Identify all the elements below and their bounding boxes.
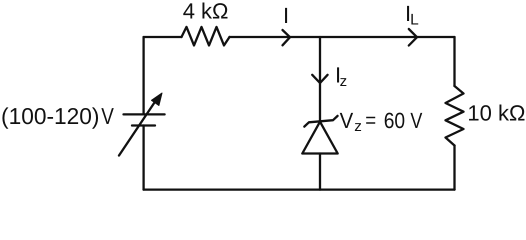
svg-text:L: L (410, 12, 419, 29)
wire left vertical lower (142, 126, 144, 190)
current arrow Iz head (312, 75, 327, 83)
wire middle vertical upper (319, 37, 321, 121)
source V1 lower plate (132, 124, 155, 126)
svg-text:V: V (410, 108, 422, 133)
zener diode D1 cathode bar (304, 116, 337, 127)
current arrow IL head (409, 29, 417, 46)
svg-text:z: z (354, 118, 362, 135)
wire right vertical upper (453, 37, 455, 86)
svg-text:V: V (340, 108, 354, 133)
svg-text:z: z (340, 73, 348, 90)
resistor R2 10 kOhm zigzag (446, 86, 464, 146)
svg-text:V: V (101, 103, 114, 129)
wire right vertical lower (453, 146, 455, 190)
resistor R1 4 kOhm zigzag (182, 27, 230, 46)
wire top-left horizontal (144, 36, 182, 38)
wire top horizontal to right corner (230, 36, 455, 38)
source V1 upper plate (124, 113, 165, 115)
wire bottom horizontal (144, 188, 455, 190)
current arrow I head (283, 30, 291, 45)
svg-text:I: I (283, 3, 289, 28)
source V1 variable arrow head (152, 93, 163, 106)
svg-text:4 kΩ: 4 kΩ (183, 0, 229, 24)
source V1 variable arrow shaft (119, 100, 157, 156)
zener diode D1 anode triangle (302, 122, 337, 154)
svg-text:60: 60 (384, 108, 405, 133)
svg-text:10 kΩ: 10 kΩ (467, 100, 525, 125)
svg-text:=: = (365, 108, 376, 133)
wire middle vertical lower (319, 154, 321, 190)
wire left vertical upper (142, 37, 144, 113)
svg-text:(100-120): (100-120) (1, 103, 100, 129)
